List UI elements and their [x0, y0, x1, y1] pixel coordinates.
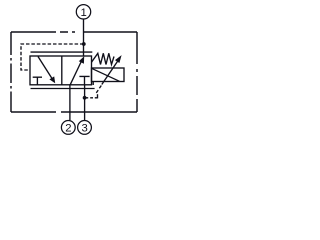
junction dot port3/drain — [83, 96, 87, 100]
right square flow arrow — [70, 60, 82, 85]
spring — [92, 53, 115, 64]
wire port 2 vertical — [69, 85, 71, 120]
envelope left edge (chain line) — [10, 32, 12, 112]
envelope top edge (chain line) — [11, 31, 137, 33]
envelope right edge (chain line) — [136, 32, 138, 112]
port circle 3 — [78, 121, 92, 135]
junction dot pilot/port1 — [82, 42, 86, 46]
drain pilot dashes (horizontal) to solenoid chamber — [85, 97, 97, 99]
envelope bottom edge (chain line) — [11, 111, 137, 113]
drain pilot corner dash (vertical) — [97, 94, 99, 98]
wire port 1 vertical — [83, 19, 85, 56]
left square flow arrow — [38, 57, 52, 80]
svg-text:3: 3 — [81, 122, 87, 134]
left square blocked port T — [33, 77, 42, 85]
pilot line (dashed) from port 1 to left spool end — [21, 44, 84, 70]
valve position divider — [61, 56, 63, 85]
svg-text:1: 1 — [81, 7, 87, 19]
svg-text:2: 2 — [65, 122, 71, 134]
solenoid drain stub — [92, 82, 94, 85]
solenoid box U1 — [92, 68, 125, 82]
wire port 3 vertical — [84, 85, 86, 120]
valve body outer rect — [30, 56, 92, 85]
spring adjustment arrow — [102, 61, 118, 85]
right square blocked port T — [79, 76, 89, 84]
port circle 2 — [61, 121, 75, 135]
solenoid diagonal — [92, 68, 120, 81]
proportional line bottom — [31, 88, 95, 90]
dashed tail of adjustment arrow below box — [96, 86, 101, 93]
proportional line top — [31, 51, 93, 53]
port circle 1 — [76, 5, 90, 19]
